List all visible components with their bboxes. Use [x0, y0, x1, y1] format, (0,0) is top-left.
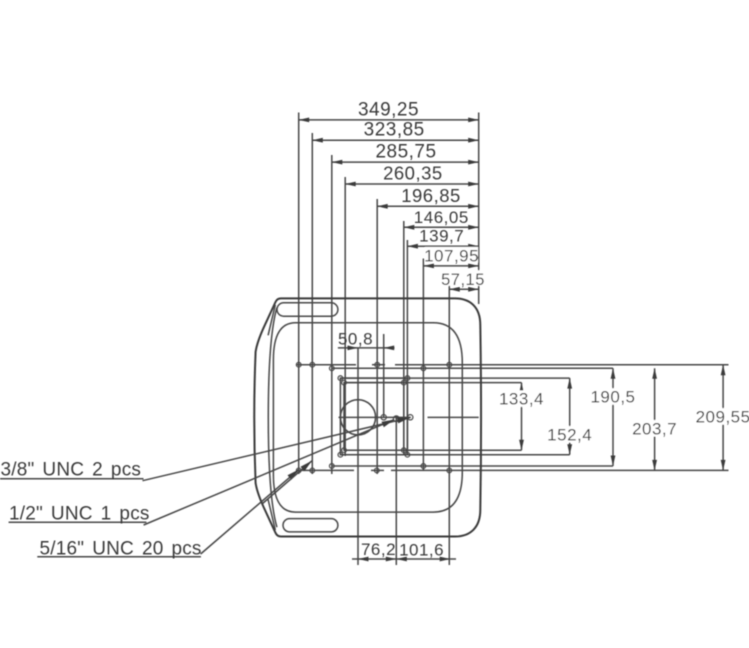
svg-text:139,7: 139,7 — [419, 227, 464, 246]
svg-text:3/8" UNC 2 pcs: 3/8" UNC 2 pcs — [1, 460, 142, 481]
svg-text:107,95: 107,95 — [424, 246, 479, 265]
svg-text:285,75: 285,75 — [375, 142, 436, 163]
svg-text:323,85: 323,85 — [364, 120, 425, 141]
svg-text:133,4: 133,4 — [499, 390, 544, 409]
svg-text:152,4: 152,4 — [547, 425, 592, 444]
svg-text:76,2: 76,2 — [361, 540, 396, 559]
svg-text:57,15: 57,15 — [441, 271, 485, 289]
svg-text:50,8: 50,8 — [338, 330, 373, 349]
svg-text:203,7: 203,7 — [632, 419, 677, 438]
svg-text:349,25: 349,25 — [358, 99, 419, 120]
svg-text:1/2" UNC 1 pcs: 1/2" UNC 1 pcs — [9, 504, 150, 525]
svg-text:209,55: 209,55 — [696, 407, 749, 426]
svg-text:101,6: 101,6 — [399, 541, 444, 560]
svg-text:260,35: 260,35 — [383, 163, 443, 184]
svg-text:196,85: 196,85 — [401, 185, 461, 206]
svg-text:190,5: 190,5 — [590, 388, 635, 407]
svg-text:5/16" UNC 20 pcs: 5/16" UNC 20 pcs — [40, 539, 202, 560]
svg-text:146,05: 146,05 — [414, 208, 469, 227]
